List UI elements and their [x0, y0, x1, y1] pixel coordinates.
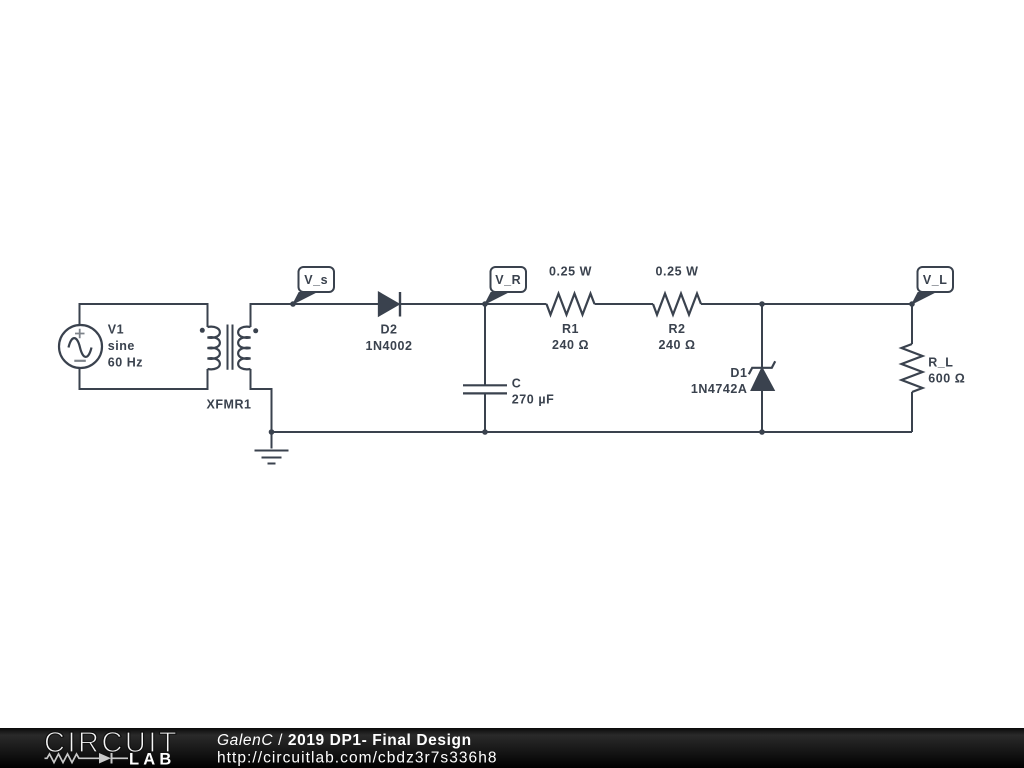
junction ground node — [269, 429, 275, 435]
svg-text:C: C — [512, 377, 522, 391]
svg-text:http://circuitlab.com/cbdz3r7s: http://circuitlab.com/cbdz3r7s336h8 — [217, 750, 498, 767]
wire V1 bottom — [80, 368, 208, 389]
capacitor C — [463, 377, 554, 407]
diode D2 — [365, 292, 412, 353]
wire secondary top — [251, 304, 379, 327]
wire V1 top — [80, 304, 208, 327]
wire R1 to R2 — [595, 303, 654, 305]
svg-text:60 Hz: 60 Hz — [108, 356, 143, 370]
junction cap-bottom — [482, 429, 488, 435]
svg-text:GalenC / 2019 DP1- Final Desig: GalenC / 2019 DP1- Final Design — [217, 732, 472, 749]
footer bar — [0, 728, 1024, 768]
node V_s flag — [293, 267, 334, 304]
junction V_L — [909, 301, 915, 307]
svg-text:V_s: V_s — [304, 273, 328, 287]
transformer XFMR1 — [200, 325, 258, 412]
wire R2 to V_L corner — [701, 303, 912, 305]
resistor R1 — [547, 264, 595, 352]
svg-text:270 µF: 270 µF — [512, 393, 554, 407]
ground — [255, 432, 289, 464]
wire zener bottom — [761, 390, 763, 432]
junction V_R — [482, 301, 488, 307]
svg-text:XFMR1: XFMR1 — [206, 398, 251, 412]
zener diode D1 — [691, 361, 775, 396]
svg-text:0.25 W: 0.25 W — [656, 264, 699, 278]
svg-text:R_L: R_L — [928, 356, 953, 370]
svg-text:R2: R2 — [668, 322, 685, 336]
node V_L flag — [912, 267, 953, 304]
wire secondary bottom to ground node — [251, 369, 272, 432]
svg-text:1N4742A: 1N4742A — [691, 382, 748, 396]
junction zener top — [759, 301, 765, 307]
svg-text:LAB: LAB — [129, 751, 176, 768]
wire cap bottom — [484, 393, 486, 432]
logo squiggle resistor+diode — [45, 754, 100, 763]
junction V_s — [290, 301, 296, 307]
wire R_L bottom — [911, 392, 913, 432]
wire diode to R1 — [401, 303, 547, 305]
svg-text:R1: R1 — [562, 322, 579, 336]
svg-text:V1: V1 — [108, 323, 124, 337]
wire V_L down to R_L — [911, 304, 913, 344]
svg-text:sine: sine — [108, 339, 135, 353]
wire zener top — [761, 304, 763, 368]
wire bottom rail — [272, 431, 913, 433]
resistor R_L — [902, 344, 966, 392]
junction zener bottom — [759, 429, 765, 435]
resistor R2 — [653, 264, 701, 352]
svg-text:1N4002: 1N4002 — [365, 339, 412, 353]
svg-text:D2: D2 — [380, 323, 397, 337]
svg-text:V_L: V_L — [923, 273, 948, 287]
svg-text:V_R: V_R — [495, 273, 521, 287]
node V_R flag — [485, 267, 526, 304]
svg-text:240 Ω: 240 Ω — [658, 338, 695, 352]
wire cap top — [484, 304, 486, 385]
svg-text:D1: D1 — [730, 366, 747, 380]
svg-text:240 Ω: 240 Ω — [552, 338, 589, 352]
svg-text:0.25 W: 0.25 W — [549, 264, 592, 278]
svg-text:600 Ω: 600 Ω — [928, 372, 965, 386]
voltage source V1 — [59, 323, 143, 370]
